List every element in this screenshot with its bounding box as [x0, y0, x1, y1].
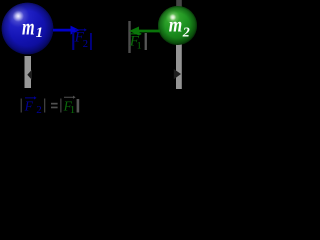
bar 3 (gray) [60, 99, 61, 113]
svg-text:F: F [24, 99, 34, 114]
distance arrowhead left (dark, pointing left) [27, 70, 32, 81]
distance marker bar below m1 [25, 56, 32, 88]
distance arrowhead right (dark, pointing right) [174, 69, 181, 79]
bar 1 (gray) [21, 99, 22, 113]
distance marker bar below m2 [176, 42, 182, 89]
label F1 absolute bar right (gray) [145, 33, 147, 50]
svg-text:m: m [169, 13, 183, 37]
svg-text:2: 2 [83, 39, 88, 50]
distance marker bar above m2 (dim) [176, 0, 182, 7]
bar 2 (gray) [44, 99, 45, 113]
svg-text:1: 1 [70, 104, 76, 116]
svg-text:2: 2 [182, 25, 190, 40]
svg-text:m: m [22, 14, 35, 39]
label F2 absolute bar left (blue) [72, 32, 74, 50]
label F1 absolute bar left (gray, tall) [128, 21, 130, 53]
mass m1 sphere [2, 3, 54, 55]
label F2 absolute bar right (blue, faint) [90, 33, 92, 50]
bar 4 (gray) [77, 99, 80, 113]
force arrow F1 on m2 (green, pointing left) [129, 27, 160, 36]
force arrow F2 on m1 (blue, pointing right) [53, 26, 80, 35]
mass m2 sphere [158, 6, 197, 45]
svg-text:1: 1 [36, 25, 44, 41]
equals (gray) [51, 103, 58, 105]
svg-text:1: 1 [137, 42, 142, 52]
svg-text:2: 2 [36, 104, 42, 116]
